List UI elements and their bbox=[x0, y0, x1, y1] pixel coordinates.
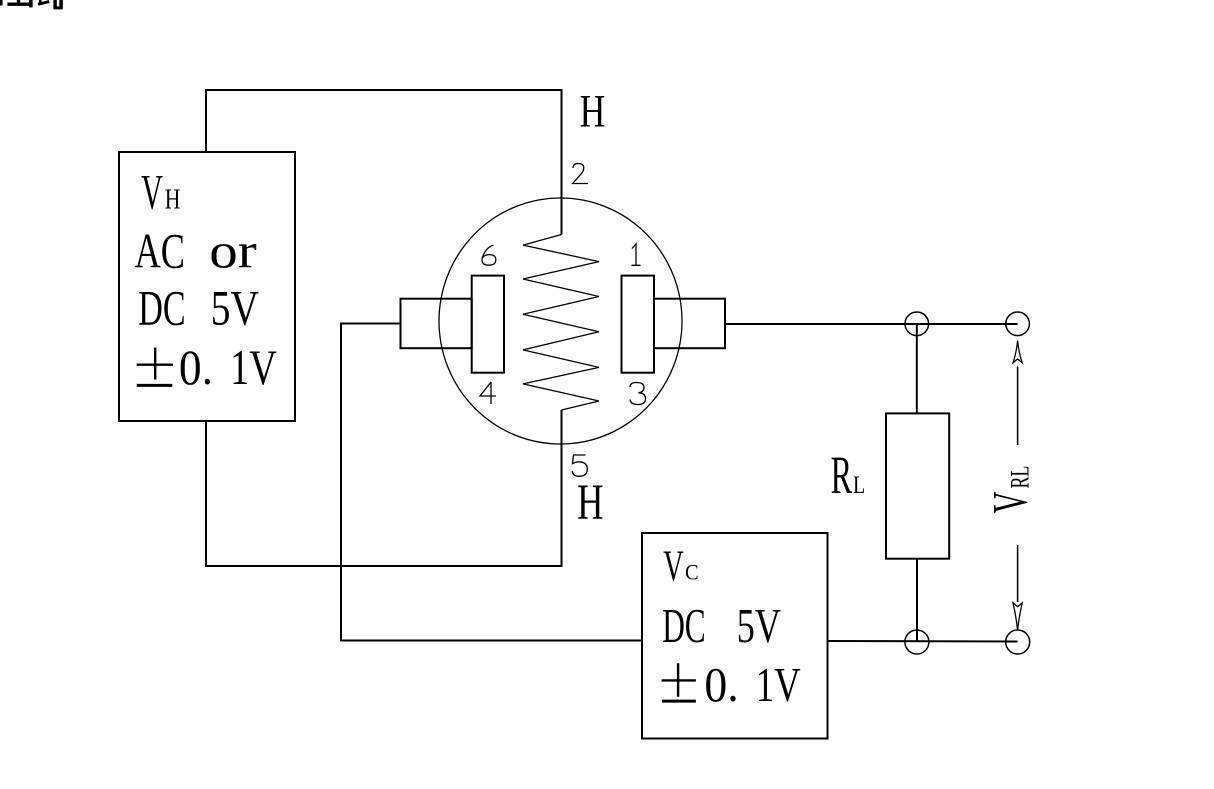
svg-text:C: C bbox=[685, 560, 699, 585]
svg-text:H: H bbox=[165, 185, 181, 216]
svg-text:5V: 5V bbox=[737, 598, 781, 653]
svg-text:L: L bbox=[853, 472, 865, 499]
svg-text:RL: RL bbox=[1006, 466, 1035, 489]
svg-text:H: H bbox=[580, 86, 606, 138]
svg-text:V: V bbox=[982, 492, 1038, 514]
svg-text:5V: 5V bbox=[211, 280, 259, 336]
svg-text:V: V bbox=[141, 164, 163, 220]
svg-text:DC: DC bbox=[662, 598, 706, 653]
svg-text:R: R bbox=[831, 444, 853, 505]
svg-text:AC: AC bbox=[135, 223, 185, 279]
svg-text:1V: 1V bbox=[230, 339, 277, 395]
svg-text:0.: 0. bbox=[179, 339, 213, 395]
svg-text:0.: 0. bbox=[704, 657, 738, 712]
svg-text:1V: 1V bbox=[756, 657, 801, 712]
svg-text:DC: DC bbox=[138, 280, 185, 336]
svg-text:V: V bbox=[663, 541, 684, 590]
svg-text:or: or bbox=[209, 223, 257, 279]
svg-text:H: H bbox=[577, 474, 603, 530]
